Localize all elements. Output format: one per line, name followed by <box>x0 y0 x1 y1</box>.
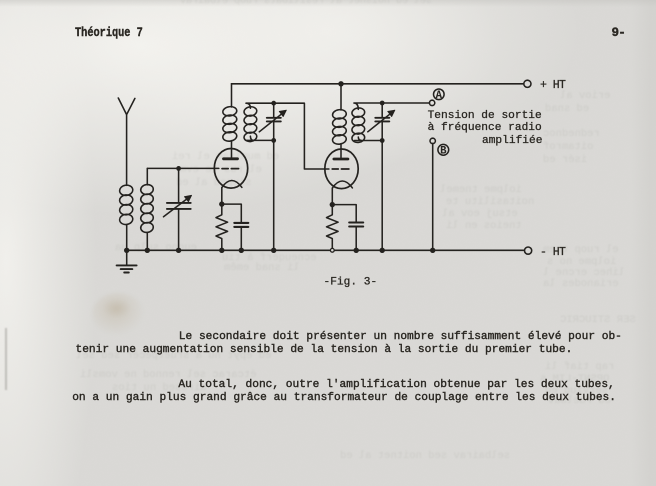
wire top rail +HT <box>232 83 524 85</box>
wire S1 bottom <box>247 136 274 140</box>
resistor R1 cathode V1 <box>216 204 228 250</box>
svg-text:amplifiée: amplifiée <box>482 135 542 147</box>
node rail CV1 <box>176 248 181 253</box>
terminal B <box>430 138 435 143</box>
inductor L1 antenna primary <box>119 184 133 250</box>
label A circled <box>434 89 445 102</box>
stain blob left-middle <box>92 293 144 335</box>
node P2 top rail junction <box>338 81 343 86</box>
svg-text:Tension de sortie: Tension de sortie <box>428 110 542 122</box>
node rail CV3 <box>380 248 385 253</box>
node rail R1 <box>219 248 224 253</box>
node cathode1 junction <box>219 201 224 206</box>
variable capacitor CV3 <box>368 103 395 250</box>
node grid1 junction <box>176 166 181 171</box>
terminal A <box>429 100 434 105</box>
node cathode2 junction <box>330 202 335 207</box>
node rail B <box>430 248 435 253</box>
inductor L3 transformer T1 primary <box>222 84 237 142</box>
wire grid1 line <box>147 167 219 169</box>
svg-text:- HT: - HT <box>540 246 566 259</box>
node S2 top junction <box>380 101 385 106</box>
inductor L6 transformer T2 secondary <box>351 107 365 143</box>
node S1 bottom junction <box>271 138 276 143</box>
wire S2 top to terminal A <box>354 103 430 109</box>
svg-text:+ HT: + HT <box>540 79 566 92</box>
svg-text:A: A <box>436 90 443 102</box>
label B circled <box>438 144 449 157</box>
node S1 top junction <box>271 101 276 106</box>
terminal +HT <box>524 80 531 87</box>
body paragraph 2 line 1 <box>178 379 614 391</box>
body paragraph 1 line 1 <box>179 331 622 343</box>
svg-text:-Fig. 3-: -Fig. 3- <box>324 276 378 288</box>
left edge streak <box>5 328 7 390</box>
tube V2 triode <box>325 144 358 205</box>
ghost bleed-through text <box>160 0 452 7</box>
wire S1 top to grid2 <box>246 103 329 169</box>
resistor R2 cathode V2 <box>327 205 339 249</box>
body paragraph 2 line 2 <box>72 392 616 404</box>
node S2 bottom junction <box>380 138 385 143</box>
capacitor C2 cathode bypass V2 <box>332 205 363 251</box>
node rail L1 <box>124 248 129 253</box>
inductor L5 transformer T2 primary <box>332 84 347 145</box>
antenna <box>118 98 135 185</box>
svg-text:à fréquence radio: à fréquence radio <box>428 122 542 134</box>
wire S2 bottom <box>354 137 382 141</box>
node rail C2 <box>354 248 359 253</box>
inductor L2 antenna secondary <box>140 168 154 250</box>
capacitor C1 cathode bypass V1 <box>222 204 249 250</box>
body paragraph 1 line 2 <box>76 344 573 356</box>
node rail CV2 <box>271 248 276 253</box>
inductor L4 transformer T1 secondary <box>243 106 257 142</box>
node rail R2 open <box>330 248 334 252</box>
node rail L2 <box>145 248 150 253</box>
svg-text:B: B <box>440 146 447 158</box>
header "Théorique 7" <box>75 25 143 40</box>
ground <box>117 250 137 272</box>
wire B to bottom rail <box>432 143 434 250</box>
tube V1 triode <box>214 141 247 205</box>
page number "9-" <box>612 26 626 40</box>
label output text <box>428 110 543 147</box>
node rail C1 <box>239 248 244 253</box>
variable capacitor CV1 <box>164 168 192 250</box>
terminal -HT <box>525 247 532 254</box>
wire bottom rail <box>127 249 525 251</box>
variable capacitor CV2 <box>259 103 286 250</box>
